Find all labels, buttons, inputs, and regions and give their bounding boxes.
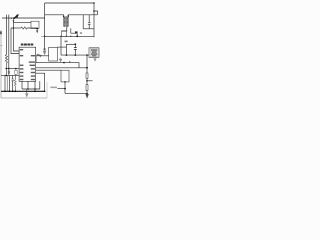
resistor R6 (box style) bbox=[86, 85, 88, 91]
wire: y=55.1 long bbox=[61, 54, 89, 56]
wire: jog 94-97.5 bbox=[94, 11, 98, 15]
wire: secondary lead from winding bbox=[62, 27, 67, 31]
node: dot (15.9,68.5) bbox=[15, 68, 16, 69]
node: dot (94,11) bbox=[93, 10, 95, 12]
node: dot transformer right top bbox=[67, 15, 69, 17]
capacitor C7 x=12.7 with plates bbox=[12, 75, 14, 91]
fuse F1 (diagonal component on rail) bbox=[14, 15, 18, 19]
wire: left bus y=75.4 into U1 bbox=[1, 74, 19, 76]
wire bbox=[86, 90, 88, 94]
ground arrow under J1 bbox=[94, 57, 96, 58]
wire: x=36.6 drop to out wire bbox=[36, 56, 38, 63]
wire: main top-left rail y=18 bbox=[2, 17, 45, 19]
relay K1a (box) bbox=[31, 21, 39, 28]
resistor R1 (horizontal zigzag) bbox=[21, 27, 27, 29]
wire: vertical x=11 down to IC pin bbox=[11, 28, 19, 54]
riser tick at x=69.8 bbox=[69, 61, 71, 63]
transformer T1 right winding bbox=[67, 16, 69, 26]
IC U1 pin labels right column bbox=[29, 55, 35, 80]
wire: x=66.4 bbox=[65, 44, 67, 55]
wire: U1 out y=73.2 down at x=44.6 bbox=[36, 73, 45, 91]
IC bottom pins bbox=[22, 81, 40, 89]
node: dot (94,3) bbox=[93, 2, 95, 4]
node: dot (70.8,36.3) bbox=[70, 36, 71, 37]
wire: U1 out y=67.8 bbox=[36, 67, 87, 69]
wire bbox=[86, 78, 88, 84]
bridge rectifier BR1 (box) bbox=[62, 31, 67, 36]
wire: long vertical x=44.6 bbox=[44, 3, 46, 48]
capacitor C3 (small box between rails) bbox=[15, 70, 18, 74]
node: dot at (44.6,41) bbox=[43, 40, 46, 43]
node: dot (75.3,44.3) bbox=[74, 43, 76, 45]
label D5 bbox=[65, 41, 68, 43]
wire: x=35 to bus bbox=[34, 89, 36, 91]
wire: top rail y=3 bbox=[45, 2, 94, 4]
node: dot (87,93.4) bbox=[86, 93, 88, 95]
wire: y=44.3 bbox=[66, 43, 75, 45]
wire: y=80.8 stub right bbox=[87, 80, 93, 82]
node: dot (66.3,36.3) bbox=[66, 36, 67, 37]
wire: left rail y=68.5 into U1 bbox=[6, 68, 19, 70]
stub on left frame bbox=[0, 45, 2, 47]
node: dot (65,88.6) bbox=[64, 88, 66, 90]
capacitor C2 (blob on x=8.8) bbox=[8, 69, 10, 76]
frame: right partial border bbox=[46, 82, 48, 98]
ground arrow under D3 bbox=[43, 51, 47, 56]
wire: vertical bus x=6.4 (tick top to resistor R2) bbox=[5, 15, 7, 55]
resistor R2 (vertical zigzag) bbox=[5, 55, 7, 76]
wire: D4 to rail bbox=[76, 34, 78, 37]
wire: y=22.6 to box K1a bbox=[13, 22, 31, 24]
net label right of U1 pin bbox=[37, 54, 40, 56]
polarity arrow under F1 bbox=[12, 19, 14, 23]
wire: x=65 down bbox=[64, 82, 66, 94]
IC U1 (box) bbox=[19, 47, 36, 81]
connector J1 (box right) bbox=[89, 48, 99, 58]
ground bus bbox=[1, 90, 45, 92]
capacitor C4 leg x=83.2 bbox=[82, 15, 84, 29]
capacitor C8 x=75.3 bbox=[74, 44, 76, 55]
wire: y=88.6 stub bbox=[57, 88, 65, 90]
IC U1 pin labels left column bbox=[20, 49, 24, 80]
capacitor C6 leg x=9.4 bbox=[8, 75, 10, 91]
node: stub at x=11 on rail bbox=[10, 18, 12, 20]
wire: U1 to K1 y=55.8 bbox=[36, 55, 49, 57]
frame: left border bbox=[0, 30, 2, 98]
node: dot transformer left top bbox=[63, 16, 65, 18]
node: junction dot (13.4,28) bbox=[13, 27, 15, 29]
relay K2 (box bottom center) bbox=[61, 70, 69, 82]
resistor R5 (box style) bbox=[86, 73, 88, 78]
wire: K1 top right y=47 bbox=[58, 46, 67, 48]
node: dot (6,75.4) bbox=[5, 75, 7, 77]
capacitor C5 leg x=89.2 with plates bbox=[88, 15, 90, 29]
net label left edge bbox=[0, 31, 2, 34]
node: dot (77.2,36.3) bbox=[76, 35, 78, 37]
wire: x=87 chain down bbox=[86, 55, 88, 73]
wire: mid rail y=14.8 left of transformer bbox=[45, 15, 64, 16]
wire: rail y=36.3 bbox=[45, 35, 94, 37]
transformer T1 left winding bbox=[64, 16, 66, 26]
node: dot (61,36.3) bbox=[60, 36, 61, 37]
ground arrow bottom right bbox=[85, 94, 88, 99]
node: bus dots bbox=[4, 91, 6, 93]
node: dots on y=55.1 bbox=[66, 54, 68, 56]
node: junction dot (37.2,28.5) bbox=[36, 28, 38, 30]
wire: stub left of rail junction bbox=[41, 36, 44, 38]
wire: R1 to node bbox=[27, 27, 37, 30]
wire: y=28.8 joining legs bbox=[83, 28, 94, 30]
IC U1 label text bbox=[21, 44, 34, 46]
earth arrow x=26.8 bbox=[26, 89, 28, 93]
wire: y=89 under IC bbox=[22, 88, 40, 90]
frame: bottom border bbox=[1, 97, 47, 99]
diode D4 (dark blob) bbox=[75, 31, 78, 33]
wire: drop x=7 to ground bus bbox=[6, 75, 8, 91]
node: dot (28,89) bbox=[27, 88, 29, 90]
node: dot (87,80.8) bbox=[86, 80, 88, 82]
wire: x=70.8 drop bbox=[71, 28, 75, 33]
wire: vertical x=94 top bbox=[93, 3, 95, 37]
node: dot (6,68.5) bbox=[5, 68, 7, 70]
node: dot (65,81.9) bbox=[64, 81, 66, 83]
wire: y=93.4 to arrow bbox=[65, 92, 87, 94]
wire: vertical x=13.4 down to IC pin bbox=[13, 23, 19, 51]
wire: U1 out y=62.6 bbox=[36, 63, 79, 68]
wire: drop x=5 to ground bus bbox=[4, 75, 6, 91]
wire: mid rail y=14.8 right of transformer bbox=[68, 15, 97, 16]
node: dot (8.8,68.5) bbox=[8, 68, 9, 69]
node: dot at (44.6,36.3) bbox=[44, 36, 46, 38]
net label small mark near x=81 bbox=[80, 32, 82, 34]
node: dot (87,67.8) bbox=[86, 67, 88, 69]
node: dot (44.6,91.3) bbox=[44, 91, 46, 93]
zener D3 ticks bbox=[44, 48, 46, 49]
ground arrow onto wire62 at x=60.6 bbox=[60, 57, 62, 58]
ground arrow on wire y=55.8 bbox=[39, 55, 42, 58]
node: dot (35,89) bbox=[34, 88, 36, 90]
relay K1 (box middle) bbox=[49, 47, 58, 61]
diode D2 (down arrow at x=37.2) bbox=[36, 29, 38, 31]
wire: vertical bus x=8.8 bbox=[8, 15, 10, 71]
node: dot (64,62.6) bbox=[63, 62, 65, 64]
wire: resistor feed y=28 bbox=[11, 27, 21, 29]
net label left of stub bbox=[50, 87, 57, 89]
resistor R3 (vertical zigzag x=15.3) bbox=[14, 75, 16, 91]
wire: U1 out y=70 to box K2 bbox=[36, 69, 61, 71]
wire: vertical x=61 box to wire55 bbox=[60, 36, 62, 55]
